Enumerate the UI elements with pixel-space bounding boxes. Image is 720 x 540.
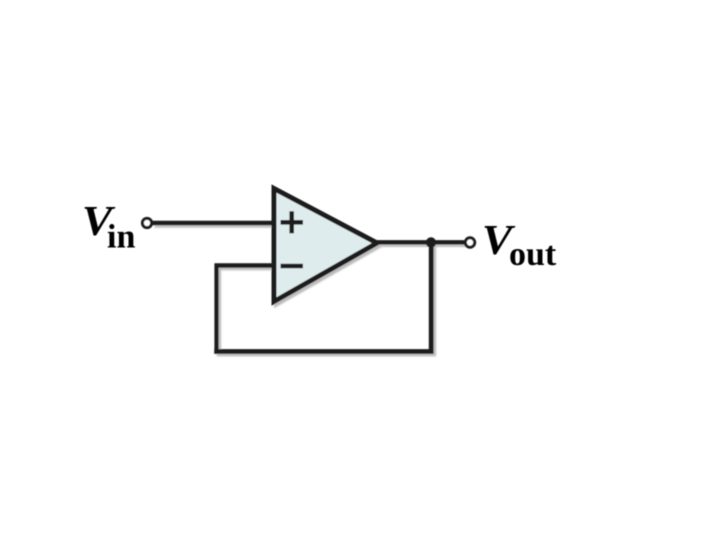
- svg-text:in: in: [107, 219, 135, 256]
- svg-text:out: out: [509, 236, 557, 273]
- wire Vin to non-inverting input: [152, 221, 274, 226]
- wire inverting input (feedback top): [215, 263, 273, 267]
- terminal Vin open circle: [142, 218, 151, 227]
- op-amp minus (inverting) input symbol: [281, 264, 304, 269]
- wire feedback bottom: [214, 349, 433, 354]
- terminal Vout open circle: [465, 238, 474, 247]
- wire output: [374, 240, 464, 244]
- op-amp U1 triangle: [274, 189, 377, 302]
- wire feedback right vertical: [429, 243, 434, 354]
- node junction dot at output: [426, 237, 436, 247]
- op-amp plus (non-inverting) input symbol: [281, 211, 304, 233]
- wire feedback left vertical: [214, 264, 218, 354]
